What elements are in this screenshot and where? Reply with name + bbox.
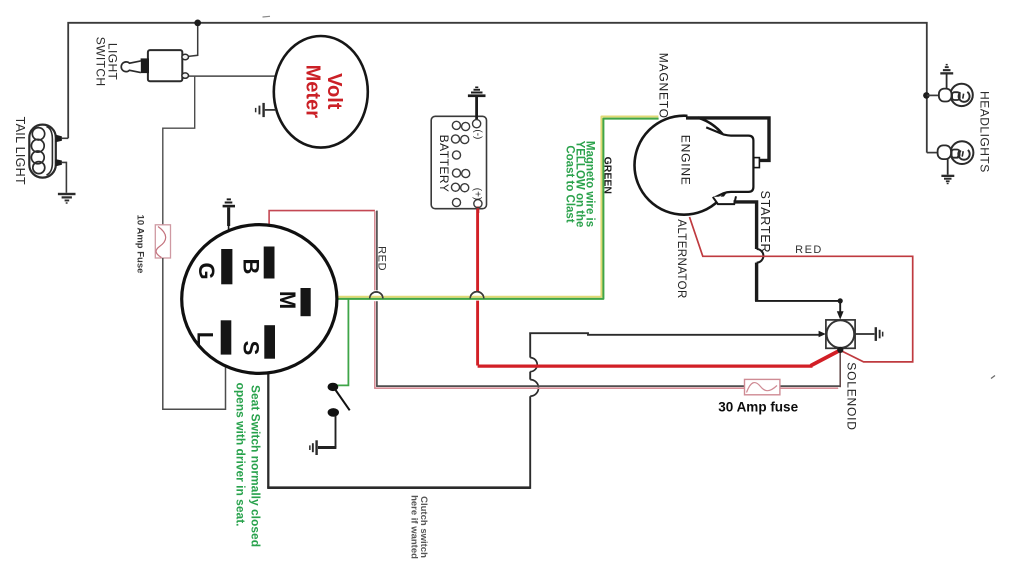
- svg-text:TAIL LIGHT: TAIL LIGHT: [13, 117, 27, 185]
- svg-text:Volt: Volt: [323, 73, 345, 110]
- svg-text:(-): (-): [472, 129, 483, 139]
- svg-text:here if wanted: here if wanted: [409, 495, 420, 559]
- svg-text:SWITCH: SWITCH: [93, 37, 107, 87]
- svg-text:Coast to Clast: Coast to Clast: [563, 145, 575, 222]
- svg-text:BATTERY: BATTERY: [437, 135, 451, 193]
- svg-text:ENGINE: ENGINE: [679, 135, 693, 186]
- svg-text:MAGNETO: MAGNETO: [657, 53, 671, 119]
- svg-text:Meter: Meter: [302, 65, 324, 119]
- svg-text:HEADLIGHTS: HEADLIGHTS: [978, 91, 992, 173]
- svg-text:SOLENOID: SOLENOID: [845, 362, 859, 430]
- svg-text:ALTERNATOR: ALTERNATOR: [675, 219, 687, 298]
- svg-text:(+): (+): [471, 188, 482, 201]
- svg-text:B: B: [239, 258, 264, 274]
- svg-text:opens with driver in seat.: opens with driver in seat.: [234, 382, 248, 526]
- svg-text:30 Amp fuse: 30 Amp fuse: [718, 400, 798, 415]
- svg-text:G: G: [194, 262, 219, 279]
- svg-text:L: L: [192, 332, 217, 345]
- svg-text:M: M: [275, 291, 300, 309]
- svg-text:GREEN: GREEN: [602, 157, 614, 194]
- svg-text:RED: RED: [795, 244, 823, 256]
- svg-text:STARTER: STARTER: [758, 191, 772, 254]
- svg-text:S: S: [239, 341, 264, 356]
- svg-text:Seat Switch normally closed: Seat Switch normally closed: [248, 385, 262, 547]
- svg-text:RED: RED: [375, 246, 387, 271]
- svg-text:10 Amp Fuse: 10 Amp Fuse: [135, 215, 146, 274]
